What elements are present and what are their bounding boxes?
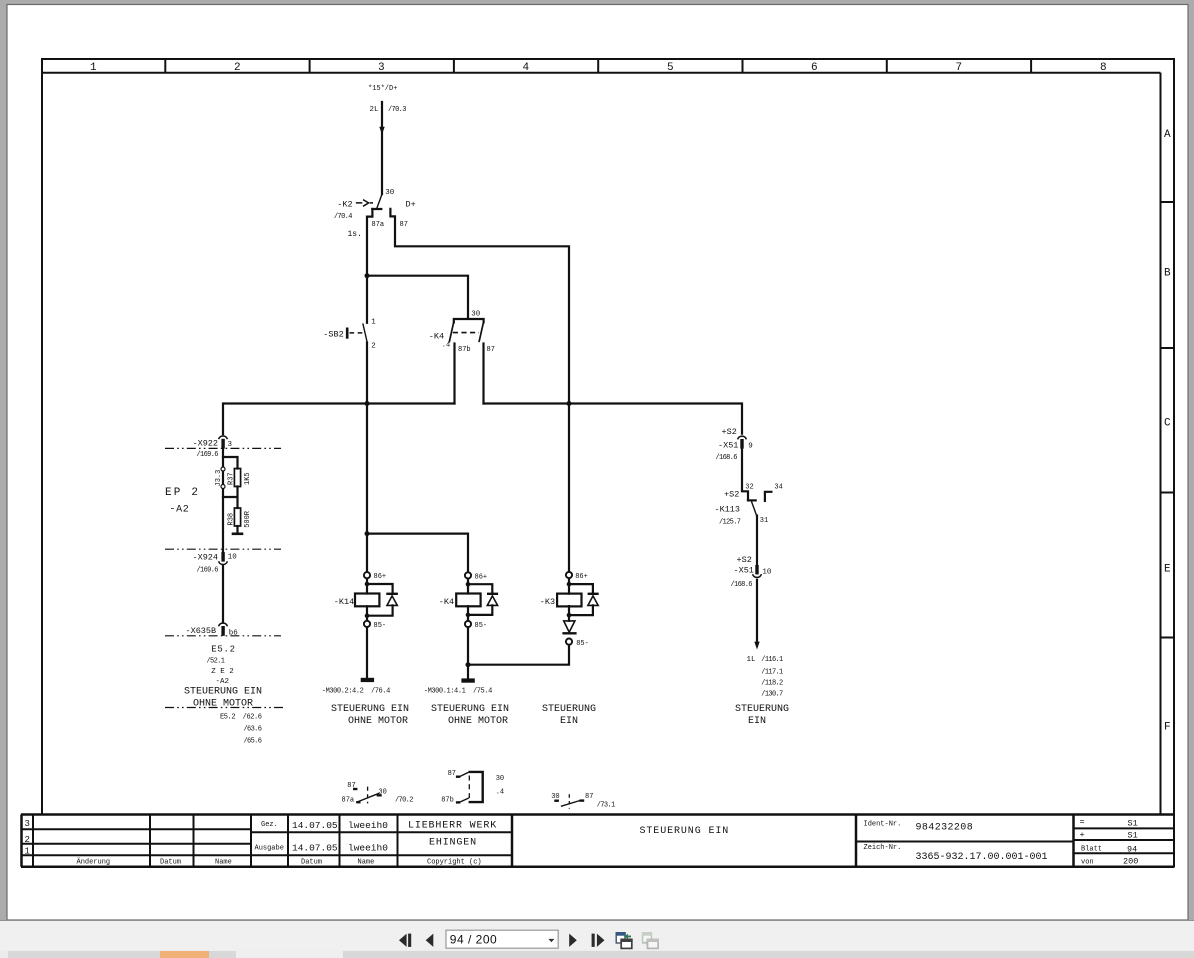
svg-text:/117.1: /117.1 <box>761 669 783 677</box>
frame right outer border <box>1173 59 1175 868</box>
svg-text:2L: 2L <box>370 106 380 114</box>
node junction K4 ground <box>466 662 471 667</box>
svg-text:32: 32 <box>745 484 753 492</box>
aenderung column line <box>149 815 151 867</box>
terminal circle K14 85- <box>364 621 370 627</box>
row separator C|E <box>1161 492 1175 494</box>
node junction K3-bus <box>567 401 572 406</box>
contact K113 moving arm <box>752 502 757 516</box>
relay coil K3 <box>557 594 581 607</box>
contact K113 terminal 34 mark <box>765 492 772 501</box>
svg-text:-A2: -A2 <box>216 678 230 686</box>
wire junction to K4 contact 30 <box>367 276 468 319</box>
connector X635B pin b6 <box>221 626 224 636</box>
SB2 actuator dashed link <box>350 332 364 334</box>
revision row line b <box>21 843 251 845</box>
ground M300.2 <box>361 678 374 682</box>
svg-text:-SB2: -SB2 <box>323 329 343 339</box>
svg-text:87a: 87a <box>342 796 355 804</box>
bus right segment <box>484 404 743 434</box>
svg-text:87: 87 <box>487 346 495 354</box>
svg-text:OHNE MOTOR: OHNE MOTOR <box>448 716 508 727</box>
suppressor diode K3 <box>588 594 599 606</box>
svg-text:1: 1 <box>90 62 97 74</box>
row separator B|C <box>1161 347 1175 349</box>
svg-text:-X51: -X51 <box>734 566 754 576</box>
svg-text:R38: R38 <box>228 513 236 526</box>
column separator 6|7 <box>886 59 888 73</box>
svg-text:.4: .4 <box>496 788 504 796</box>
svg-text:S1: S1 <box>1128 831 1138 841</box>
svg-text:/63.6: /63.6 <box>244 726 262 734</box>
connector X635B socket arc <box>219 623 228 626</box>
contact K4 top bar with hooks <box>454 319 484 322</box>
svg-text:B: B <box>1164 268 1171 280</box>
svg-text:STEUERUNG EIN: STEUERUNG EIN <box>331 704 409 715</box>
svg-text:200: 200 <box>1123 857 1138 867</box>
svg-text:31: 31 <box>760 517 768 525</box>
wire tap to R37 <box>223 457 238 469</box>
svg-text:lweeih0: lweeih0 <box>348 820 388 831</box>
svg-text:/118.2: /118.2 <box>761 680 783 688</box>
terminal circle K14 86+ <box>364 572 370 578</box>
subtable row line 1 <box>1074 827 1175 829</box>
frame right inner border of letter strip <box>1160 73 1162 815</box>
svg-text:C: C <box>1164 418 1171 430</box>
svg-text:1L: 1L <box>747 656 757 664</box>
svg-text:86+: 86+ <box>374 573 387 581</box>
svg-text:34: 34 <box>774 484 782 492</box>
connector X51 socket arc pin9 <box>738 436 747 439</box>
svg-text:2: 2 <box>25 835 30 845</box>
svg-text:E5.2: E5.2 <box>211 645 235 655</box>
svg-text:-K4: -K4 <box>439 597 454 607</box>
taskbar strip background <box>0 951 1194 958</box>
title block left border <box>20 815 23 867</box>
svg-text:-X635B: -X635B <box>186 626 217 636</box>
wire branch to K4 coil <box>367 534 468 573</box>
svg-text:87b: 87b <box>441 796 454 804</box>
svg-text:lweeih0: lweeih0 <box>348 843 388 854</box>
column separator 5|6 <box>742 59 744 73</box>
svg-text:E: E <box>1164 564 1171 576</box>
taskbar segment right <box>343 951 1194 958</box>
node junction K2out-SB2 <box>365 273 370 278</box>
contact K4 dashed link <box>453 332 479 334</box>
svg-text:85-: 85- <box>576 640 589 648</box>
svg-text:+S2: +S2 <box>724 490 739 500</box>
svg-text:3: 3 <box>25 819 30 829</box>
cross-ref symbol K4 changeover contact <box>456 772 483 803</box>
wire X51-10 down arrow <box>756 580 758 643</box>
svg-text:J3.3: J3.3 <box>215 470 223 487</box>
title block top border <box>21 813 1174 816</box>
svg-text:87: 87 <box>448 770 456 778</box>
frame top line <box>41 58 1175 60</box>
svg-text:EIN: EIN <box>560 716 578 727</box>
svg-text:10: 10 <box>228 553 238 561</box>
subtable row line 3 <box>1074 852 1175 854</box>
node junction K3 86 <box>567 582 572 587</box>
svg-text:Blatt: Blatt <box>1081 845 1102 853</box>
svg-text:/70.3: /70.3 <box>388 106 406 114</box>
frame column band bottom line <box>41 72 1161 74</box>
svg-text:A: A <box>1164 129 1171 141</box>
row separator E|F <box>1161 637 1175 639</box>
svg-text:5: 5 <box>667 62 674 74</box>
svg-text:87: 87 <box>585 793 593 801</box>
schematic text labels <box>334 85 495 354</box>
wire K3 86 to coil <box>568 578 570 594</box>
svg-text:94 / 200: 94 / 200 <box>450 932 497 946</box>
wire bus to K3 <box>568 404 570 572</box>
svg-text:-X922: -X922 <box>193 439 219 449</box>
boundary dashdot line X635B <box>165 635 281 637</box>
wire X922 to X924 <box>222 448 224 553</box>
svg-text:.4: .4 <box>442 341 450 349</box>
terminal bar under R38 <box>233 532 242 535</box>
svg-text:von: von <box>1081 858 1094 866</box>
connector X51 pin 10 <box>755 565 758 574</box>
subtable left line <box>1072 815 1075 867</box>
svg-text:/168.6: /168.6 <box>716 454 738 462</box>
taskbar segment orange <box>160 951 209 958</box>
arrow at 1L wire end <box>754 642 759 650</box>
column separator 7|8 <box>1030 59 1032 73</box>
K2 actuation arrow <box>356 200 373 207</box>
svg-text:OHNE MOTOR: OHNE MOTOR <box>193 699 253 710</box>
svg-text:+S2: +S2 <box>722 427 737 437</box>
svg-text:3: 3 <box>378 62 385 74</box>
svg-text:Copyright (c): Copyright (c) <box>427 858 482 866</box>
taskbar segment left <box>8 951 236 958</box>
svg-text:=: = <box>1080 817 1085 827</box>
wire K14 86 to coil <box>366 578 368 593</box>
wire K14 85 to ground <box>366 627 368 678</box>
label row top line left <box>21 854 512 856</box>
boundary dashdot line X922 <box>165 447 281 449</box>
column separator 2|3 <box>309 59 311 73</box>
svg-text:b6: b6 <box>229 629 239 637</box>
svg-text:10: 10 <box>762 569 772 577</box>
next view icon disabled <box>642 932 659 948</box>
svg-text:Z E 2: Z E 2 <box>211 668 234 676</box>
svg-text:D+: D+ <box>406 199 416 209</box>
svg-text:30: 30 <box>496 775 504 783</box>
revision number column line <box>32 815 34 867</box>
wire K4 86 to coil <box>467 579 469 594</box>
taskbar segment light gap <box>236 951 343 958</box>
page number combobox <box>446 930 558 948</box>
gez ausgabe divider <box>251 831 512 833</box>
svg-text:Zeich-Nr.: Zeich-Nr. <box>864 844 902 852</box>
relay coil K4 <box>456 594 480 607</box>
terminal circle K4 86+ <box>465 572 471 578</box>
ident cell left line <box>855 815 858 867</box>
wire K4 87 down to bus <box>482 344 484 404</box>
svg-text:2: 2 <box>234 62 241 74</box>
svg-text:-K2: -K2 <box>337 199 352 209</box>
connector X924 socket arc <box>219 561 228 564</box>
svg-text:/52.1: /52.1 <box>207 658 225 666</box>
wire K3 diode branch <box>569 584 593 621</box>
svg-text:87: 87 <box>347 782 355 790</box>
wire bus to K14 <box>366 404 368 573</box>
svg-text:1s.: 1s. <box>348 230 362 239</box>
bus left segment <box>223 404 455 435</box>
svg-text:/130.7: /130.7 <box>761 691 783 699</box>
cross-ref symbol K3 NO contact <box>554 794 584 808</box>
svg-text:STEUERUNG: STEUERUNG <box>735 704 789 715</box>
connector X51 pin 9 <box>740 439 743 449</box>
column separator 3|4 <box>453 59 455 73</box>
previous view icon enabled <box>616 932 633 948</box>
node junction K14-K4coil <box>365 531 370 536</box>
svg-text:7: 7 <box>956 62 963 74</box>
svg-text:EHINGEN: EHINGEN <box>429 837 477 848</box>
svg-text:-K14: -K14 <box>334 597 354 607</box>
svg-text:-M300.1:4.1 /75.4: -M300.1:4.1 /75.4 <box>424 687 492 695</box>
svg-text:30: 30 <box>378 788 386 796</box>
svg-text:1K5: 1K5 <box>244 472 252 485</box>
svg-text:4: 4 <box>523 62 530 74</box>
boundary dashdot line X924 <box>165 548 281 550</box>
arrow on supply wire <box>379 127 384 135</box>
cross-ref labels K3 <box>551 793 615 810</box>
svg-text:86+: 86+ <box>575 573 588 581</box>
svg-text:/70.4: /70.4 <box>334 213 352 221</box>
column separator 1|2 <box>164 59 166 73</box>
name value column line <box>339 815 341 867</box>
svg-text:87: 87 <box>400 221 408 229</box>
wire K4 87b down to bus <box>453 344 455 404</box>
contact K2 moving arm <box>377 194 382 208</box>
contact K113 fixed tick 32 <box>748 499 756 501</box>
svg-text:1: 1 <box>371 319 376 327</box>
nav button next page <box>569 934 577 947</box>
svg-text:+S2: +S2 <box>737 555 752 565</box>
svg-text:/125.7: /125.7 <box>719 519 741 527</box>
svg-text:87a: 87a <box>372 221 385 229</box>
svg-text:S1: S1 <box>1128 819 1138 829</box>
svg-text:/70.2: /70.2 <box>395 796 413 804</box>
svg-text:-A2: -A2 <box>170 505 190 516</box>
svg-text:500R: 500R <box>244 510 252 528</box>
terminal circle K3 86+ <box>566 572 572 578</box>
series diode K3 <box>562 621 576 633</box>
contact K4 moving arm 87b side <box>449 323 453 343</box>
svg-text:Name: Name <box>358 858 375 866</box>
wire K4 85 to ground <box>467 627 469 678</box>
connector X51 socket arc pin10 <box>753 574 762 577</box>
svg-text:-X924: -X924 <box>193 553 219 563</box>
wire supply 2L vertical <box>381 102 383 194</box>
svg-text:STEUERUNG EIN: STEUERUNG EIN <box>431 704 509 715</box>
ident zeich divider <box>856 841 1074 843</box>
nav button first page <box>399 934 411 947</box>
SCHEMATIC_START <box>223 102 771 678</box>
test point circle J3.3 lower <box>221 485 225 489</box>
wire R37 to R38 tap <box>223 487 238 509</box>
suppressor diode K4 <box>487 594 498 606</box>
wire R38 bottom <box>236 526 238 534</box>
svg-text:/73.1: /73.1 <box>597 802 615 810</box>
svg-text:Gez.: Gez. <box>261 821 278 829</box>
terminal circle K3 85- <box>566 639 572 645</box>
svg-text:/168.6: /168.6 <box>731 581 753 589</box>
viewer toolbar background <box>0 921 1194 951</box>
frame left border <box>41 59 43 815</box>
company name LIEBHERR WERK EHINGEN <box>408 820 497 848</box>
svg-text:/169.6: /169.6 <box>197 567 219 575</box>
datum column line <box>193 815 195 867</box>
SB2 actuator button bar <box>346 328 349 339</box>
svg-text:14.07.05: 14.07.05 <box>292 820 338 831</box>
svg-text:/65.6: /65.6 <box>244 738 262 746</box>
svg-text:9: 9 <box>748 442 753 450</box>
nav button previous page <box>426 934 434 947</box>
row separator A|B <box>1161 201 1175 203</box>
svg-text:STEUERUNG EIN: STEUERUNG EIN <box>640 826 730 837</box>
title block bottom border <box>21 865 1174 868</box>
wire X924 to X635B <box>222 566 224 622</box>
boundary dashdot line E5.2 <box>165 707 283 709</box>
liebherr cell left line <box>397 815 399 867</box>
cross-ref labels K2 <box>342 782 414 805</box>
title cell left line <box>511 815 514 867</box>
svg-text:STEUERUNG: STEUERUNG <box>542 704 596 715</box>
connector X922 pin 3 <box>221 439 224 449</box>
svg-text:3: 3 <box>228 441 233 449</box>
combobox dropdown arrow <box>548 939 554 942</box>
svg-text:EIN: EIN <box>748 716 766 727</box>
svg-text:8: 8 <box>1100 62 1107 74</box>
ground M300.1 <box>461 678 474 682</box>
svg-text:Datum: Datum <box>301 858 322 866</box>
svg-text:-M300.2:4.2 /76.4: -M300.2:4.2 /76.4 <box>322 688 390 696</box>
svg-text:30: 30 <box>385 189 395 197</box>
wire SB2 lower <box>366 343 368 404</box>
terminal circle K4 85- <box>465 621 471 627</box>
svg-text:-K4: -K4 <box>429 331 444 341</box>
svg-text:Ident-Nr.: Ident-Nr. <box>864 820 902 828</box>
svg-text:Änderung: Änderung <box>77 857 111 866</box>
node junction K14 86 <box>365 582 370 587</box>
svg-text:F: F <box>1164 722 1171 734</box>
connector X922 socket arc <box>219 436 228 439</box>
svg-text:/169.6: /169.6 <box>197 451 219 459</box>
svg-text:/116.1: /116.1 <box>761 656 783 664</box>
svg-text:2: 2 <box>371 342 376 350</box>
wire K2 87a step <box>367 209 381 276</box>
svg-text:94: 94 <box>1127 844 1137 854</box>
svg-text:3365-932.17.00.001-001: 3365-932.17.00.001-001 <box>916 852 1048 863</box>
svg-text:*15*/D+: *15*/D+ <box>368 85 397 93</box>
svg-text:87b: 87b <box>458 346 471 354</box>
node junction SB2-bus <box>365 401 370 406</box>
svg-text:6: 6 <box>811 62 818 74</box>
connector X924 pin 10 <box>221 552 224 562</box>
svg-text:86+: 86+ <box>475 573 488 581</box>
wire K113 31 to X51-10 <box>756 516 758 566</box>
node junction K3 85 <box>567 613 572 618</box>
date value column line <box>287 815 289 867</box>
test point circle J3.3 upper <box>221 467 225 471</box>
svg-text:-K3: -K3 <box>540 597 555 607</box>
svg-text:984232208: 984232208 <box>916 822 974 833</box>
svg-text:30: 30 <box>551 793 559 801</box>
wire K3 85 to K4 ground <box>468 645 569 665</box>
svg-text:85-: 85- <box>475 622 488 630</box>
svg-text:14.07.05: 14.07.05 <box>292 843 338 854</box>
node junction K14 85 <box>365 613 370 618</box>
wire X51-9 to K113 <box>742 449 748 501</box>
TITLEBLOCK_START <box>21 815 1174 867</box>
svg-text:STEUERUNG EIN: STEUERUNG EIN <box>184 687 262 698</box>
relay coil K14 <box>355 594 379 607</box>
svg-text:30: 30 <box>471 310 481 318</box>
wire K2 87 step to bus <box>390 209 569 404</box>
cross-ref symbol K2 aux contact <box>353 787 382 804</box>
svg-text:E5.2 /62.6: E5.2 /62.6 <box>220 714 262 722</box>
suppressor diode K14 <box>386 594 398 606</box>
column separator 4|5 <box>597 59 599 73</box>
svg-text:LIEBHERR WERK: LIEBHERR WERK <box>408 820 497 831</box>
wire K14 diode branch <box>367 584 393 621</box>
svg-text:Name: Name <box>215 858 232 866</box>
wire SB2 upper <box>366 276 368 323</box>
gez column line <box>250 815 252 867</box>
svg-text:85-: 85- <box>374 622 387 630</box>
svg-text:-X51: -X51 <box>718 441 738 451</box>
svg-text:R37: R37 <box>228 472 236 485</box>
resistor R37 <box>234 469 240 487</box>
svg-text:OHNE MOTOR: OHNE MOTOR <box>348 716 408 727</box>
node junction K4 85 <box>466 613 471 618</box>
nav button last page <box>592 934 605 947</box>
svg-text:+: + <box>1080 830 1085 840</box>
cross-ref labels K4 <box>441 770 504 804</box>
node junction K4 86 <box>466 582 471 587</box>
svg-text:-K113: -K113 <box>715 505 741 515</box>
contact K4 moving arm 87 side <box>479 323 483 343</box>
svg-text:Datum: Datum <box>160 858 181 866</box>
subtable row line 2 <box>1074 839 1175 841</box>
revision row line a <box>21 828 251 830</box>
svg-text:Ausgabe: Ausgabe <box>255 844 284 852</box>
svg-text:EP 2: EP 2 <box>165 487 200 499</box>
wire K4 diode branch <box>468 584 492 621</box>
svg-text:1: 1 <box>25 847 30 857</box>
contact SB2 moving arm <box>363 323 367 341</box>
resistor R38 <box>234 508 240 526</box>
